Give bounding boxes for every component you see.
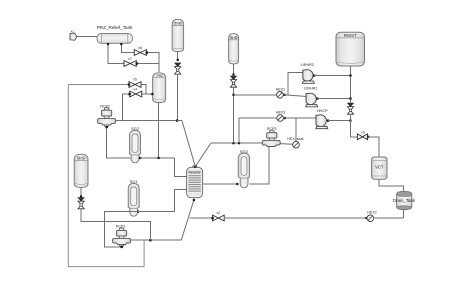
wire HEX2 to drain tank — [374, 217, 404, 219]
wire v6 right to PRZ top — [146, 53, 159, 72]
wire PRZ surge line — [158, 103, 160, 159]
wire VCT to drain tank — [379, 179, 403, 191]
tank PRZ_Relief_Tank — [97, 25, 133, 43]
wire HHCP discharge to RWST line — [328, 120, 351, 122]
wire RWST line lower — [351, 114, 358, 137]
wire SG1 outlet to RCP1 suction — [105, 212, 139, 248]
node HEX2 inlet — [365, 217, 367, 219]
reactor vessel — [187, 166, 203, 198]
svg-text:HEX1: HEX1 — [276, 87, 285, 91]
svg-text:v4: v4 — [133, 87, 137, 91]
wire HEX1 line — [234, 94, 277, 96]
svg-text:PRZ_Relief_Tank: PRZ_Relief_Tank — [97, 25, 133, 30]
svg-text:K1: K1 — [71, 30, 75, 34]
node RWST line joins — [349, 74, 351, 76]
source K1 — [70, 30, 77, 41]
wire HEX2 drain line — [189, 217, 212, 219]
svg-text:LtRHR2: LtRHR2 — [301, 63, 315, 67]
valve RWST line (vertical stack) — [347, 103, 353, 114]
svg-text:HEX2: HEX2 — [367, 211, 376, 215]
wire big spray loop left vertical — [68, 85, 144, 267]
node RCP1 suction — [121, 246, 123, 248]
wire v3 to VCT — [368, 137, 379, 157]
svg-text:v7: v7 — [128, 57, 132, 61]
wire SG1 loop into reactor — [138, 189, 187, 211]
wire RCP1 discharge — [131, 239, 182, 241]
vessel SIT1 — [74, 154, 88, 187]
svg-text:HEX_seal: HEX_seal — [287, 137, 303, 141]
vessel SG2 — [130, 126, 141, 163]
svg-text:RWST: RWST — [344, 33, 357, 38]
svg-text:PRZ: PRZ — [157, 74, 163, 78]
valve v2 — [211, 211, 224, 221]
svg-text:v2: v2 — [216, 211, 220, 215]
wire drain tank bottom to HEX2 line — [402, 210, 404, 218]
pump LtRHR2 — [301, 63, 315, 84]
svg-text:Drain_Tank: Drain_Tank — [393, 198, 416, 203]
node HEX1 line tap — [232, 94, 234, 96]
wire RCP2 suction from SG2 — [107, 128, 131, 158]
wire reactor top to RCP3 header (diagonal) — [195, 143, 211, 166]
wire SG3 outlet to RCP3 suction riser — [250, 146, 269, 184]
vessel SG1 — [128, 179, 139, 216]
wire RCP3 discharge to HEX_seal — [280, 143, 293, 146]
valve SIT1 isolation (vertical stack) — [78, 198, 84, 209]
tank RWST — [336, 32, 365, 66]
wire v5 right to v4 right join — [141, 85, 146, 95]
svg-text:HEX3: HEX3 — [276, 111, 285, 115]
valve v6 — [134, 46, 148, 56]
wire HEX_seal riser — [295, 118, 297, 141]
wire RCP2 discharge (cold leg 2) — [116, 120, 178, 122]
heat exchanger HEX2 — [367, 211, 377, 222]
wire ACC1 valve down to header — [233, 87, 235, 143]
wire RWST down line — [350, 66, 352, 103]
wire nozzle1 to v7 — [108, 45, 124, 64]
pump RCP3 — [262, 127, 280, 147]
wire spray line to v5 — [68, 84, 129, 86]
node LtRHR1 discharge — [316, 97, 318, 99]
wire LtRHR2 discharge to RWST line — [314, 75, 350, 77]
pump HHCP — [316, 109, 328, 129]
wire v4 left to cold leg tap — [122, 94, 129, 121]
valve v7 — [124, 57, 138, 66]
wire HEX3 to HHCP — [283, 117, 316, 119]
pump RCP2 — [98, 104, 116, 126]
vessel SG3 — [238, 149, 249, 188]
node SG3 inlet — [236, 183, 238, 185]
node ACC1 valve inlet — [232, 74, 234, 76]
node HEX3 outlet — [284, 117, 286, 119]
node reactor top nozzle — [194, 166, 196, 168]
svg-text:v6: v6 — [138, 46, 142, 50]
svg-text:VCT: VCT — [375, 164, 384, 169]
wire SIT1 valve to RCP1 suction line — [81, 209, 150, 240]
valve v3 — [357, 130, 369, 139]
node cold leg junction — [176, 119, 178, 121]
valve ACC1 isolation (vertical stack) — [230, 76, 236, 87]
node HHCP discharge — [327, 120, 329, 122]
node reactor bottom nozzle — [193, 199, 195, 201]
wire v7 right joins vertical — [136, 63, 159, 65]
heat exchanger HEX3 — [276, 111, 285, 122]
vessel ACC1 — [229, 34, 239, 64]
node RCP2 suction — [106, 126, 108, 128]
pump RCP1 — [113, 225, 131, 247]
wire v4 right to PRZ left — [146, 93, 152, 95]
valve SIT2 isolation (vertical stack) — [175, 63, 181, 74]
node SIT2 valve inlet — [177, 59, 179, 61]
svg-text:Reactor: Reactor — [188, 170, 201, 174]
wire SIT2 to valve — [177, 52, 179, 61]
node SG1 outlet — [137, 211, 139, 213]
svg-text:v3: v3 — [361, 130, 365, 134]
wire SIT1 to valve — [80, 187, 82, 197]
svg-text:v5: v5 — [133, 78, 137, 82]
wire HEX3 feed corner — [239, 118, 277, 143]
vessel SIT2 — [172, 19, 184, 51]
node PRZ left inlet — [151, 93, 153, 95]
tank VCT — [372, 157, 387, 179]
valve v5 — [128, 78, 141, 88]
node LtRHR2 discharge — [313, 74, 315, 76]
svg-text:HHCP: HHCP — [317, 109, 328, 113]
wire SG2 to hot leg corner — [140, 157, 174, 159]
heat exchanger HEX_seal — [287, 137, 303, 148]
node SIT1 valve inlet — [80, 195, 82, 197]
tank Drain_Tank — [393, 191, 416, 209]
wire cold leg to reactor top — [177, 120, 182, 122]
wire source to relief tank — [77, 36, 98, 38]
wire cold leg 1 diagonal to reactor bottom — [181, 200, 194, 240]
valve v4 — [128, 87, 141, 97]
node tank bottom nozzle 2 — [120, 43, 122, 45]
node SG2 outlet — [139, 157, 141, 159]
svg-text:LtRHR1: LtRHR1 — [304, 86, 318, 90]
node SIT2 line junctions on RCP3 header — [232, 142, 234, 144]
wire branch up to LtRHR2 — [288, 73, 303, 95]
wire v2 to HEX2 — [224, 217, 367, 219]
wire SIT2 valve down to cold leg — [177, 74, 179, 120]
pump LtRHR1 — [304, 86, 318, 107]
wire ACC1 to valve — [233, 64, 235, 76]
heat exchanger HEX1 — [276, 87, 285, 98]
node RCP1 discharge junction — [149, 239, 151, 241]
vessel PRZ — [153, 73, 166, 103]
wire LtRHR1 discharge to RWST line — [317, 98, 350, 100]
wire HEX1 to LtRHR1 — [283, 95, 307, 97]
wire reactor right to SG3 — [203, 183, 239, 185]
node surge junction — [158, 157, 160, 159]
node tank bottom nozzle 1 — [107, 43, 109, 45]
node HEX1 outlet — [283, 94, 285, 96]
wire nozzle2 to v6 — [121, 45, 134, 53]
wire hot leg 2 into reactor — [175, 158, 187, 176]
